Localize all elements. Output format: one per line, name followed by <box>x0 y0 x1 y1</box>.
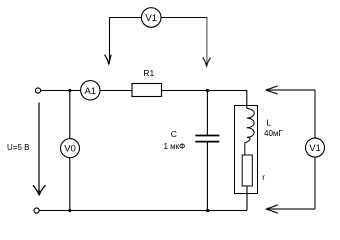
node junction (V0 top) <box>68 89 71 92</box>
wire V0 branch vertical <box>69 91 71 211</box>
wire capacitor upper lead <box>206 91 208 135</box>
wire top probe left vertical <box>109 18 111 63</box>
ammeter A1 <box>81 81 100 100</box>
svg-text:U=5 В: U=5 В <box>7 143 29 152</box>
svg-text:V0: V0 <box>64 144 76 155</box>
source arrow U <box>38 103 40 194</box>
wire main top rail <box>41 90 247 92</box>
wire V1 right bottom lead <box>268 208 315 210</box>
inductor L coil <box>245 109 254 156</box>
wire V1 right top lead <box>268 89 316 91</box>
svg-text:R1: R1 <box>143 68 154 78</box>
terminal (bottom left) <box>34 208 39 213</box>
svg-text:1 мкФ: 1 мкФ <box>164 142 186 151</box>
wire main bottom rail <box>39 210 247 212</box>
wire inductor branch top lead <box>246 90 248 109</box>
wire V1 right vertical <box>314 90 316 209</box>
arrowhead left (V1 right top) <box>266 86 277 94</box>
wire inductor branch bottom lead <box>246 186 248 211</box>
node junction (capacitor bottom) <box>206 209 209 212</box>
wire top probe bracket horizontal <box>110 17 208 19</box>
arrowhead left (V1 right bottom) <box>267 205 278 213</box>
resistor R1 <box>132 84 162 97</box>
terminal (top left) <box>35 88 40 93</box>
svg-text:L: L <box>266 118 271 128</box>
wire top probe right vertical (gray) <box>206 18 208 64</box>
node junction (V0 bottom) <box>68 209 71 212</box>
coil box outline <box>235 106 258 194</box>
resistor r <box>242 155 252 186</box>
svg-text:r: r <box>262 173 265 182</box>
svg-text:40мГ: 40мГ <box>264 129 283 138</box>
wire capacitor lower lead <box>206 143 208 211</box>
arrowhead down (left probe of V1 top) <box>105 55 112 64</box>
voltmeter V1 (right) <box>306 138 325 157</box>
voltmeter V0 <box>61 139 80 158</box>
svg-text:C: C <box>171 129 177 139</box>
node junction (capacitor top) <box>206 89 209 92</box>
svg-text:V1: V1 <box>309 143 321 154</box>
capacitor C plates <box>195 135 219 137</box>
svg-text:V1: V1 <box>145 13 157 24</box>
svg-text:A1: A1 <box>84 86 96 97</box>
voltmeter V1 (top) <box>141 8 161 28</box>
arrowhead down (right probe of V1 top) <box>203 57 211 65</box>
